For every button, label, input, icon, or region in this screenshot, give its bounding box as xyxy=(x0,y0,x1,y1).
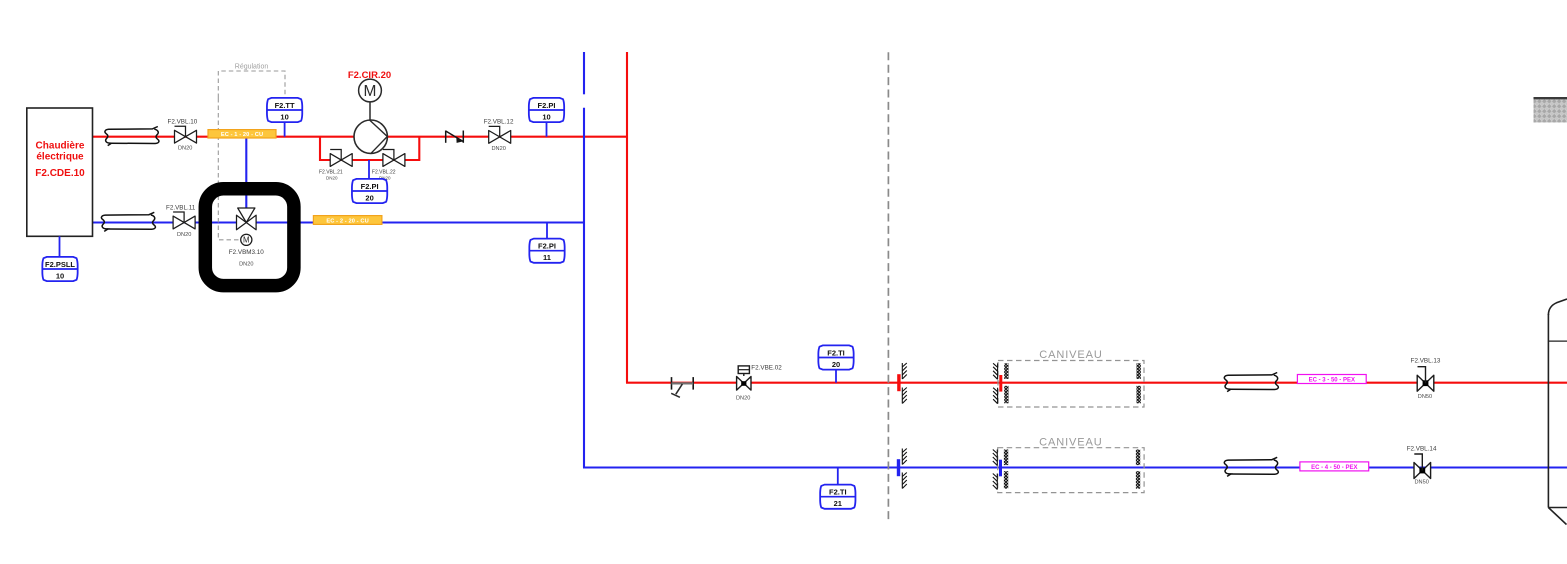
black highlight rounded square xyxy=(205,189,294,286)
svg-text:DN20: DN20 xyxy=(736,395,750,401)
svg-text:DN20: DN20 xyxy=(177,232,191,238)
instrument bubble F2.PI 11 xyxy=(529,239,564,263)
instrument bubble F2.TT 10 xyxy=(267,98,302,122)
instrument bubble F2.PSLL 10 xyxy=(42,257,77,281)
wire: blue stub TT bubble to red pipe xyxy=(284,123,286,137)
svg-text:20: 20 xyxy=(365,193,373,202)
pipe label EC - 4 - 50 - PEX xyxy=(1300,462,1369,471)
instrument bubble F2.PI 20 xyxy=(352,179,387,203)
valve F2.VBL.11 xyxy=(173,212,195,229)
regulation dashed box xyxy=(218,71,285,240)
flexible connector on red lower pipe xyxy=(1224,373,1278,392)
svg-text:F2.CIR.20: F2.CIR.20 xyxy=(348,70,391,81)
svg-text:EC - 4 - 50 - PEX: EC - 4 - 50 - PEX xyxy=(1311,465,1357,471)
svg-text:F2.TT: F2.TT xyxy=(275,101,295,110)
pipe label EC - 3 - 50 - PEX xyxy=(1297,375,1366,384)
CANIVEAU box lower (blue pipe) xyxy=(993,437,1144,493)
svg-text:11: 11 xyxy=(543,253,551,262)
svg-text:DN20: DN20 xyxy=(326,175,338,180)
wall crossing on blue pipe xyxy=(897,449,907,489)
wire: blue stub bypass to PI20 bubble xyxy=(368,160,370,179)
valve F2.VBE.02 with actuator xyxy=(737,366,751,390)
svg-text:20: 20 xyxy=(832,360,840,369)
valve F2.VBL.14 xyxy=(1414,454,1431,479)
zone boundary dashed line xyxy=(887,52,889,523)
pipe: blue return horizontal from boiler xyxy=(93,221,585,223)
svg-text:F2.CDE.10: F2.CDE.10 xyxy=(35,168,85,179)
valve F2.VBL.10 xyxy=(175,126,197,143)
svg-text:10: 10 xyxy=(542,112,550,121)
svg-text:DN50: DN50 xyxy=(1418,394,1432,400)
tank shell partial at right edge xyxy=(1548,299,1567,525)
svg-text:DN20: DN20 xyxy=(178,146,192,152)
svg-text:F2.VBL.12: F2.VBL.12 xyxy=(484,119,514,126)
CANIVEAU box upper (red pipe) xyxy=(993,349,1144,407)
svg-text:F2.VBL.13: F2.VBL.13 xyxy=(1411,358,1441,365)
svg-text:CANIVEAU: CANIVEAU xyxy=(1039,349,1102,361)
svg-text:F2.VBL.11: F2.VBL.11 xyxy=(166,205,196,212)
svg-text:EC - 3 - 50 - PEX: EC - 3 - 50 - PEX xyxy=(1309,378,1355,384)
wall weave block top right xyxy=(1534,98,1567,123)
pump motor M circle xyxy=(359,79,382,102)
flexible connector on blue lower pipe xyxy=(1224,457,1278,476)
svg-text:EC - 2 - 20 - CU: EC - 2 - 20 - CU xyxy=(326,219,368,225)
pipe: blue vertical riser upper segment xyxy=(583,52,585,94)
flexible connector on red supply xyxy=(105,127,159,146)
svg-text:M: M xyxy=(364,83,377,100)
wall crossing on red pipe xyxy=(897,363,907,404)
svg-text:10: 10 xyxy=(56,271,64,280)
svg-text:Chaudière: Chaudière xyxy=(36,141,85,152)
svg-text:CANIVEAU: CANIVEAU xyxy=(1039,437,1102,449)
svg-text:F2.PI: F2.PI xyxy=(538,101,556,110)
instrument bubble F2.TI 21 xyxy=(820,485,855,509)
svg-text:F2.VBE.02: F2.VBE.02 xyxy=(751,365,782,372)
valve F2.VBL.13 xyxy=(1417,367,1434,392)
pipe label EC - 1 - 20 - CU xyxy=(208,130,276,139)
wire: blue stub TI21 to blue pipe xyxy=(837,468,839,486)
instrument bubble F2.PI 10 xyxy=(529,98,564,122)
valve F2.VBL.12 xyxy=(489,126,511,143)
svg-text:DN20: DN20 xyxy=(239,262,253,268)
pipe: blue vertical riser lower segment xyxy=(583,108,585,468)
svg-text:F2.VBL.10: F2.VBL.10 xyxy=(168,119,198,126)
svg-text:F2.VBM3.10: F2.VBM3.10 xyxy=(229,249,264,256)
pipe: blue lower horizontal to right edge xyxy=(583,466,1567,468)
wire: blue stub PI11 to blue pipe xyxy=(546,223,548,239)
pipe: red lower horizontal to right edge xyxy=(626,382,1567,384)
svg-text:F2.TI: F2.TI xyxy=(829,488,847,497)
pipe label EC - 2 - 20 - CU xyxy=(313,216,382,225)
svg-text:F2.VBL.14: F2.VBL.14 xyxy=(1407,446,1437,453)
boiler F2.CDE.10 xyxy=(27,108,93,236)
svg-text:DN20: DN20 xyxy=(492,146,506,152)
svg-text:F2.PI: F2.PI xyxy=(538,242,556,251)
wire: blue drop from red pipe to 3-way valve xyxy=(245,137,247,210)
drain fitting with cap on red lower pipe xyxy=(671,377,693,397)
flexible connector on blue return xyxy=(101,212,155,231)
wire: blue stub TI20 to red pipe xyxy=(835,370,837,383)
pump F2.CIR.20 circle xyxy=(354,120,387,153)
wire: blue stub PI10 to red pipe xyxy=(546,123,548,137)
svg-text:Régulation: Régulation xyxy=(235,64,269,71)
pipe: red bypass loop xyxy=(320,137,419,160)
pump impeller triangle xyxy=(370,120,388,153)
svg-text:M: M xyxy=(243,236,250,245)
svg-text:EC - 1 - 20 - CU: EC - 1 - 20 - CU xyxy=(221,132,263,138)
3-way valve F2.VBM3.10 xyxy=(237,208,257,245)
pipe: red vertical riser xyxy=(626,52,628,383)
valve F2.VBL.21 xyxy=(330,150,352,167)
svg-text:10: 10 xyxy=(280,112,288,121)
svg-text:DN50: DN50 xyxy=(1415,480,1429,486)
svg-text:F2.TI: F2.TI xyxy=(827,348,845,357)
valve F2.VBL.22 xyxy=(383,150,405,167)
svg-text:21: 21 xyxy=(834,499,842,508)
instrument bubble F2.TI 20 xyxy=(818,345,853,369)
check valve xyxy=(446,131,464,143)
svg-text:F2.PSLL: F2.PSLL xyxy=(45,260,75,269)
wire: blue stub boiler to PSLL bubble xyxy=(59,236,61,257)
pipe: red supply horizontal from boiler xyxy=(93,136,628,138)
svg-text:F2.PI: F2.PI xyxy=(361,182,379,191)
svg-text:électrique: électrique xyxy=(36,152,84,163)
wire: motor stem xyxy=(369,102,371,121)
